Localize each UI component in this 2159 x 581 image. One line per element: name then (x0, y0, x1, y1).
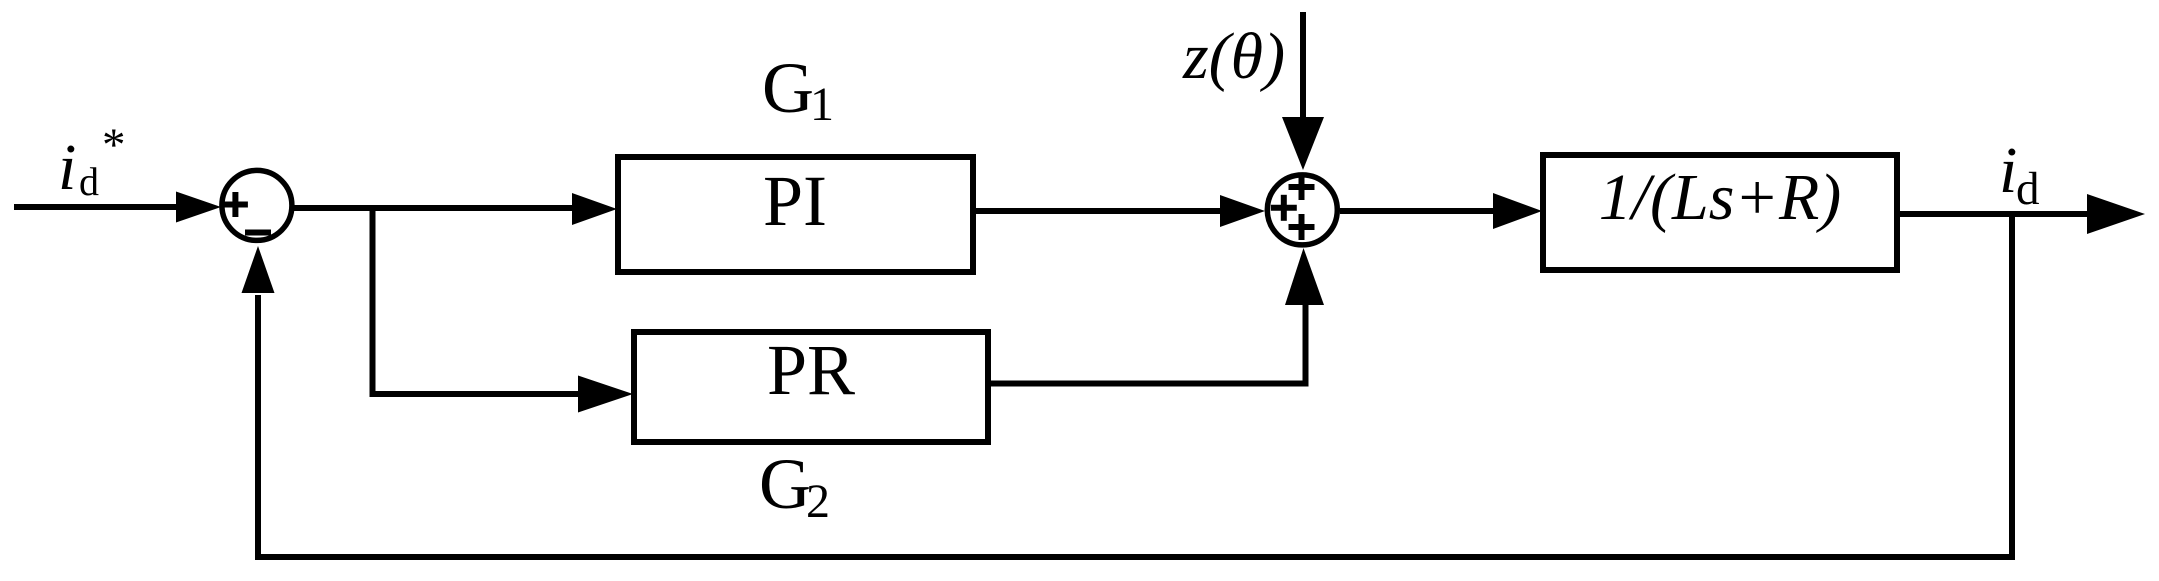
node label i_d* (reference input) (58, 119, 126, 204)
wire PR output to S2 bottom (988, 381, 1306, 387)
svg-text:d: d (2016, 163, 2040, 215)
svg-text:PR: PR (767, 330, 855, 410)
wire plant to output (1897, 211, 2090, 217)
svg-text:2: 2 (806, 475, 830, 528)
svg-text:i: i (58, 131, 76, 204)
plus sign left in S2 (1271, 195, 1297, 221)
svg-text:1/(Ls+R): 1/(Ls+R) (1599, 161, 1842, 234)
wire feedback up (255, 295, 261, 560)
label G1 (762, 48, 834, 131)
arrowhead up into S2 bottom (1285, 248, 1324, 305)
wire S1 to PI (294, 205, 575, 211)
svg-text:d: d (79, 159, 99, 204)
arrowhead output (2087, 194, 2145, 234)
block PI (G1) (618, 157, 973, 272)
arrowhead into PI (572, 193, 617, 225)
block PR (G2) (634, 332, 988, 442)
wire S2 to plant block (1340, 208, 1500, 214)
svg-text:*: * (102, 119, 126, 171)
svg-text:i: i (1999, 134, 2017, 207)
minus sign in S1 (245, 230, 271, 236)
summing junction S2 (1267, 175, 1337, 245)
arrowhead into summing junction S1 (176, 192, 221, 223)
node branch junction (370, 208, 376, 394)
label G2 (759, 444, 830, 528)
node label i_d (output) (1999, 134, 2040, 215)
arrowhead into S2 left (1220, 195, 1265, 227)
wire output branch down (2009, 214, 2015, 554)
svg-text:z(θ): z(θ) (1182, 20, 1285, 93)
svg-text:G: G (762, 48, 814, 128)
svg-text:G: G (759, 444, 811, 524)
plus sign in S1 (223, 192, 248, 217)
wire branch to PR (370, 391, 581, 397)
wire z(theta) input from top (1300, 12, 1306, 125)
wire feedback bottom (255, 554, 2015, 560)
plus sign top in S2 (1289, 174, 1315, 200)
wire input line (14, 204, 180, 210)
arrowhead up into S1 bottom (242, 246, 275, 293)
arrowhead into PR (578, 376, 633, 413)
svg-text:PI: PI (763, 161, 827, 241)
wire PI to summing junction S2 (973, 208, 1225, 214)
svg-text:1: 1 (810, 78, 834, 131)
arrowhead down into S2 top (1282, 117, 1324, 170)
plus sign bottom in S2 (1289, 214, 1315, 240)
arrowhead into plant block (1493, 193, 1542, 229)
summing junction S1 (222, 170, 292, 240)
block 1/(Ls+R) (1543, 155, 1897, 270)
